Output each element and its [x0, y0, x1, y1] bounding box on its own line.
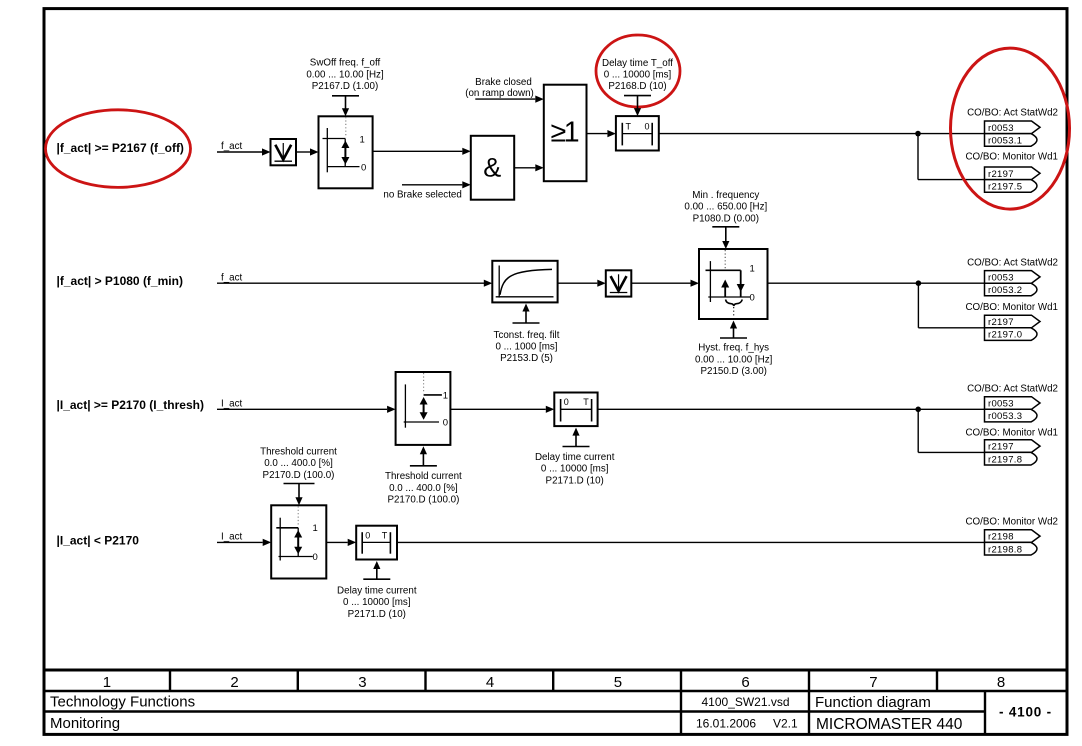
junction row1 [915, 131, 921, 137]
absolute value box V row2 [606, 270, 632, 296]
column divider 6|7 full height [808, 670, 810, 734]
title block top line [43, 669, 1068, 672]
svg-text:P2170.D (100.0): P2170.D (100.0) [263, 470, 335, 481]
svg-text:r0053.3: r0053.3 [988, 411, 1022, 422]
output connector r2198.8 [985, 542, 1038, 555]
svg-text:0: 0 [313, 552, 318, 563]
wire comparator P2167 to AND gate [373, 150, 463, 152]
hysteresis brace under step [726, 300, 743, 307]
wire comparator row3 to on-delay timer [450, 408, 545, 410]
wire branch row2 down to Monitor Wd1 [917, 283, 919, 328]
red highlight ellipse around row-1 label [46, 110, 191, 188]
wire I_act to comparator P2170 row3 [217, 408, 387, 410]
svg-text:r2197.5: r2197.5 [988, 182, 1022, 193]
svg-text:r2197: r2197 [988, 442, 1014, 453]
svg-text:Tconst. freq. filt: Tconst. freq. filt [494, 330, 560, 341]
svg-text:- 4100 -: - 4100 - [999, 705, 1052, 720]
svg-text:T: T [626, 121, 632, 131]
output connector r0053.2 [985, 283, 1038, 296]
svg-text:0.00 ... 650.00 [Hz]: 0.00 ... 650.00 [Hz] [684, 202, 767, 213]
svg-text:1: 1 [103, 674, 111, 691]
svg-text:r2198: r2198 [988, 532, 1014, 543]
svg-text:0 ... 10000 [ms]: 0 ... 10000 [ms] [541, 464, 609, 475]
svg-text:Delay time current: Delay time current [337, 585, 417, 596]
svg-text:1: 1 [360, 134, 365, 145]
svg-text:|I_act| < P2170: |I_act| < P2170 [57, 534, 140, 548]
svg-text:0: 0 [645, 121, 650, 131]
wire branch row3 down to Monitor Wd1 [917, 409, 919, 452]
svg-text:Monitoring: Monitoring [50, 715, 120, 732]
svg-text:6: 6 [741, 674, 749, 691]
svg-text:Threshold current: Threshold current [385, 471, 462, 482]
wire no Brake selected to AND gate [402, 184, 462, 186]
AND gate & [471, 136, 514, 200]
output connector r2197.0 [985, 328, 1038, 341]
svg-text:0: 0 [443, 418, 448, 429]
red highlight ellipse around row-1 output connectors [951, 48, 1070, 209]
title block line under Technology Functions row [43, 710, 986, 712]
wire I_act to comparator P2170 row4 [217, 541, 263, 543]
svg-text:0.00 ... 10.00 [Hz]: 0.00 ... 10.00 [Hz] [306, 69, 384, 80]
svg-text:0 ... 1000 [ms]: 0 ... 1000 [ms] [495, 342, 557, 353]
svg-text:0 ... 10000 [ms]: 0 ... 10000 [ms] [604, 70, 672, 81]
svg-text:r0053.2: r0053.2 [988, 285, 1022, 296]
svg-text:0: 0 [564, 397, 569, 407]
svg-text:T: T [583, 397, 589, 407]
svg-text:&: & [483, 152, 501, 182]
svg-text:V2.1: V2.1 [773, 716, 798, 730]
svg-text:CO/BO: Act StatWd2: CO/BO: Act StatWd2 [967, 383, 1058, 394]
svg-text:r2197.0: r2197.0 [988, 330, 1022, 341]
wire OR gate to off-delay timer [587, 133, 608, 135]
svg-text:Threshold current: Threshold current [260, 446, 337, 457]
svg-text:r0053: r0053 [988, 273, 1014, 284]
svg-text:0: 0 [750, 292, 755, 303]
svg-text:CO/BO: Act StatWd2: CO/BO: Act StatWd2 [967, 257, 1058, 268]
svg-text:CO/BO: Monitor Wd2: CO/BO: Monitor Wd2 [965, 517, 1058, 528]
wire comparator row4 to on-delay timer row4 [326, 541, 347, 543]
output connector r2197 [985, 167, 1041, 180]
svg-text:0: 0 [361, 162, 366, 173]
wire AND gate to OR gate [514, 167, 535, 169]
svg-text:r0053: r0053 [988, 399, 1014, 410]
svg-text:P2153.D (5): P2153.D (5) [500, 353, 553, 364]
svg-text:2: 2 [230, 674, 238, 691]
svg-text:7: 7 [869, 674, 877, 691]
column divider 7|8 [936, 670, 938, 691]
svg-text:Technology Functions: Technology Functions [50, 694, 195, 711]
absolute value box V row1 [271, 139, 297, 165]
PT1 smoothing filter box [492, 261, 557, 303]
svg-text:no Brake selected: no Brake selected [383, 189, 461, 200]
parameter label P2171.D row3 (Delay time current) [563, 446, 590, 448]
output connector r2198 [985, 530, 1041, 543]
on-delay timer box 0-T row3 [554, 393, 597, 427]
on-delay timer box 0-T row4 [356, 526, 397, 560]
OR gate >=1 [544, 85, 587, 182]
comparator box P2167 (SwOff freq) [319, 116, 373, 188]
svg-text:P2170.D (100.0): P2170.D (100.0) [387, 495, 459, 506]
svg-text:0: 0 [365, 530, 370, 540]
svg-text:r2197: r2197 [988, 317, 1014, 328]
svg-text:Function diagram: Function diagram [815, 694, 931, 711]
title block line under column numbers [43, 690, 1068, 693]
svg-text:Brake closed: Brake closed [475, 77, 532, 88]
svg-text:P1080.D (0.00): P1080.D (0.00) [693, 213, 759, 224]
comparator box P2170 falling (row4) [271, 505, 326, 578]
svg-text:1: 1 [750, 264, 755, 275]
off-delay timer box T-0 row1 [616, 116, 659, 150]
svg-text:P2150.D (3.00): P2150.D (3.00) [700, 366, 766, 377]
svg-text:|f_act| > P1080 (f_min): |f_act| > P1080 (f_min) [57, 274, 183, 288]
wire timer row1 to output connectors [659, 133, 985, 135]
svg-text:|f_act| >= P2167 (f_off): |f_act| >= P2167 (f_off) [57, 141, 184, 155]
svg-text:CO/BO: Act StatWd2: CO/BO: Act StatWd2 [967, 107, 1058, 118]
svg-text:Delay time current: Delay time current [535, 452, 615, 463]
junction row2 [916, 280, 922, 286]
output connector r0053.1 [985, 134, 1038, 147]
svg-text:0 ... 10000 [ms]: 0 ... 10000 [ms] [343, 597, 411, 608]
svg-text:CO/BO: Monitor Wd1: CO/BO: Monitor Wd1 [965, 302, 1058, 313]
svg-text:r0053: r0053 [988, 123, 1014, 134]
output connector r0053 [985, 271, 1041, 284]
svg-text:P2167.D (1.00): P2167.D (1.00) [312, 81, 378, 92]
svg-text:(on ramp down): (on ramp down) [465, 88, 534, 99]
wire f_act to PT1 filter [217, 282, 484, 284]
wire comparator P1080 to output connectors [768, 282, 985, 284]
svg-text:I_act: I_act [221, 398, 243, 409]
svg-text:0.0 ... 400.0 [%]: 0.0 ... 400.0 [%] [264, 458, 333, 469]
svg-text:r2198.8: r2198.8 [988, 544, 1022, 555]
wire V box row2 to comparator P1080 [631, 282, 690, 284]
svg-text:Min . frequency: Min . frequency [692, 190, 759, 201]
svg-text:r2197: r2197 [988, 169, 1014, 180]
comparator box P2170 rising (I_thresh) [396, 372, 451, 445]
output connector r2197.8 [985, 452, 1038, 465]
svg-text:1: 1 [443, 390, 448, 401]
wire f_act to absolute-value box [217, 151, 264, 153]
svg-text:|I_act| >= P2170 (I_thresh): |I_act| >= P2170 (I_thresh) [57, 398, 204, 412]
svg-text:4100_SW21.vsd: 4100_SW21.vsd [701, 695, 789, 709]
parameter label P2170.D below row3 box (Threshold current) [410, 465, 437, 467]
svg-text:0.00 ... 10.00 [Hz]: 0.00 ... 10.00 [Hz] [695, 354, 773, 365]
wire branch row1 down to Monitor Wd1 [917, 134, 919, 180]
output connector r2197.5 [985, 180, 1038, 193]
parameter label P2150.D (Hyst freq f_hys) [720, 337, 747, 339]
svg-text:5: 5 [614, 674, 622, 691]
svg-text:CO/BO: Monitor Wd1: CO/BO: Monitor Wd1 [965, 427, 1058, 438]
svg-text:CO/BO: Monitor Wd1: CO/BO: Monitor Wd1 [965, 151, 1058, 162]
divider left of -4100- cell [984, 691, 986, 734]
output connector r0053 [985, 121, 1041, 134]
comparator box P1080 (Min frequency) with hysteresis [699, 249, 768, 319]
svg-text:8: 8 [997, 674, 1005, 691]
output connector r0053.3 [985, 409, 1038, 422]
svg-text:f_act: f_act [221, 141, 243, 152]
junction row3 [915, 407, 921, 413]
column divider 2|3 [297, 670, 299, 691]
svg-text:I_act: I_act [221, 532, 243, 543]
column divider 5|6 full height [680, 670, 682, 734]
output connector r2197 [985, 315, 1041, 328]
svg-text:1: 1 [313, 523, 318, 534]
svg-text:16.01.2006: 16.01.2006 [696, 716, 756, 730]
svg-text:Delay time T_off: Delay time T_off [602, 58, 673, 69]
wire V box to comparator P2167 [296, 151, 312, 153]
svg-text:r0053.1: r0053.1 [988, 136, 1022, 147]
svg-text:≥1: ≥1 [551, 117, 579, 149]
svg-text:MICROMASTER 440: MICROMASTER 440 [816, 716, 963, 733]
svg-text:f_act: f_act [221, 272, 243, 283]
svg-text:SwOff freq. f_off: SwOff freq. f_off [310, 58, 381, 69]
svg-text:3: 3 [358, 674, 366, 691]
svg-text:T: T [382, 530, 388, 540]
svg-text:4: 4 [486, 674, 494, 691]
column divider 3|4 [424, 670, 426, 691]
red highlight ellipse around Delay time T_off label [596, 35, 680, 107]
svg-text:P2168.D (10): P2168.D (10) [608, 81, 666, 92]
column divider 1|2 [169, 670, 171, 691]
column divider 4|5 [552, 670, 554, 691]
svg-text:P2171.D (10): P2171.D (10) [348, 609, 406, 620]
svg-text:Hyst. freq. f_hys: Hyst. freq. f_hys [698, 343, 769, 354]
wire Brake closed to OR gate [475, 98, 535, 100]
wire timer row4 to output connector [397, 541, 985, 543]
parameter label P2171.D row4 (Delay time current) [363, 578, 390, 580]
svg-text:r2197.8: r2197.8 [988, 454, 1022, 465]
wire filter to absolute-value box row2 [558, 282, 598, 284]
output connector r2197 [985, 440, 1041, 453]
parameter label P2153.D (Tconst freq filt) [513, 322, 540, 324]
output connector r0053 [985, 397, 1041, 410]
svg-text:0.0 ... 400.0 [%]: 0.0 ... 400.0 [%] [389, 483, 458, 494]
svg-text:P2171.D (10): P2171.D (10) [546, 475, 604, 486]
wire timer row3 to output connectors [598, 408, 985, 410]
